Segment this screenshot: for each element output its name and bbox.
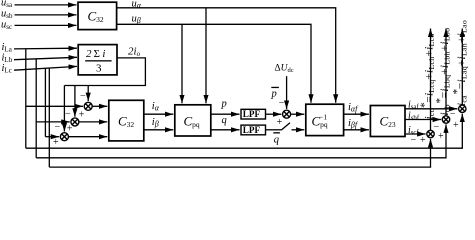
wire 2io drop into S3: [63, 86, 65, 132]
svg-text:2io: 2io: [128, 46, 141, 59]
summer S2: [71, 118, 79, 126]
svg-text:+: +: [453, 120, 459, 131]
svg-text:iβf: iβf: [348, 118, 359, 130]
wire bus phase-b to summer B: [36, 124, 446, 157]
svg-text:iαf: iαf: [348, 102, 359, 114]
wire dUdc drop into SP: [286, 76, 288, 109]
svg-text:p: p: [271, 88, 277, 99]
wire bus phase-c to summer C: [49, 139, 430, 167]
wire phase-c tap to summer S3: [44, 68, 46, 136]
wire i_Lc into S3: [45, 136, 59, 138]
wire SP to Cpq-inverse: [291, 113, 305, 115]
wire S3 to C32 current: [68, 136, 107, 138]
wire 2io drop into S1: [87, 86, 89, 102]
wire i_La input: [14, 47, 77, 50]
svg-text:LPF: LPF: [243, 109, 261, 119]
wire phase-a tap vertical: [25, 49, 27, 148]
svg-text:iα: iα: [152, 101, 160, 113]
switch blade: [281, 123, 290, 130]
wire summer C output up: [430, 29, 432, 131]
svg-text:+: +: [420, 135, 426, 146]
svg-text:ica*=iLaq+iLah+iLao: ica*=iLaq+iLah+iLao: [452, 20, 469, 106]
block LPF2: [241, 125, 266, 135]
svg-text:−: −: [55, 122, 61, 133]
wire bus phase-a to summer A: [26, 114, 463, 149]
wire i_alpha: [144, 113, 174, 115]
svg-text:iβ: iβ: [152, 117, 159, 129]
svg-text:iLa: iLa: [2, 42, 13, 54]
block Cpq inverse: [306, 104, 344, 135]
wire summer B output up: [445, 29, 447, 116]
svg-text:+: +: [79, 110, 85, 121]
wire i_beta: [144, 129, 174, 131]
block LPF1: [241, 109, 266, 119]
svg-text:−: −: [80, 91, 86, 102]
wire phase-c tap vertical to bus: [48, 68, 50, 167]
summer B: [442, 116, 449, 123]
svg-text:uβ: uβ: [132, 14, 141, 26]
svg-text:p: p: [221, 98, 227, 109]
svg-text:LPF: LPF: [243, 125, 261, 135]
svg-text:C32: C32: [118, 114, 134, 130]
fraction bar: [85, 60, 111, 61]
wire u_beta rail to Cpq-inverse: [117, 24, 311, 102]
wire p-bar to summer SP: [266, 113, 282, 115]
svg-text:uα: uα: [132, 0, 142, 10]
wire p to LPF1: [211, 113, 240, 115]
block C23: [370, 106, 405, 137]
wire switch to Cpq-inverse: [292, 129, 305, 131]
wire q-bar to switch: [266, 129, 282, 131]
wire u_alpha rail to Cpq-inverse: [117, 8, 336, 103]
wire q to LPF2: [211, 129, 240, 131]
wire i_beta_f: [344, 129, 369, 131]
wire 2io output distribution: [64, 58, 145, 86]
wire u_alpha drop to Cpq: [205, 8, 207, 104]
svg-text:3: 3: [96, 62, 102, 74]
svg-text:usc: usc: [1, 19, 12, 31]
svg-text:−: −: [279, 98, 285, 109]
summer C: [427, 130, 434, 137]
wire u_sa input: [15, 4, 77, 6]
svg-text:−: −: [65, 108, 71, 119]
wire S2 to C32 current: [79, 121, 107, 123]
wire i_scf to summer C: [405, 133, 426, 135]
wire i_La into S1: [26, 105, 83, 107]
wire summer A output up: [461, 29, 463, 106]
wire i_alpha_f: [344, 113, 369, 115]
svg-text:q: q: [274, 135, 279, 146]
wire u_sb input: [15, 14, 77, 16]
svg-text:2Σi: 2Σi: [86, 48, 105, 60]
svg-text:+: +: [277, 117, 283, 128]
wire S1 to C32 current: [92, 105, 107, 107]
wire phase-b tap vertical: [35, 59, 37, 158]
svg-text:q: q: [222, 115, 227, 126]
svg-text:isbf: isbf: [408, 110, 420, 122]
summer SP: [283, 110, 291, 118]
wire u_beta drop to Cpq: [181, 24, 183, 103]
wire i_Lc input: [14, 66, 77, 70]
summer A: [459, 105, 466, 112]
wire u_sc input: [15, 24, 77, 26]
wire i_Lb input: [14, 57, 77, 59]
summer S3: [60, 133, 68, 141]
block C32 current transform: [109, 100, 144, 141]
wire i_saf to summer A: [405, 108, 457, 110]
svg-text:C32: C32: [88, 9, 104, 25]
svg-text:icb*=iLbq+iLbh+iLbo: icb*=iLbq+iLbh+iLbo: [435, 28, 452, 116]
svg-text:+: +: [67, 124, 73, 135]
svg-text:−: −: [411, 135, 417, 146]
block C32 voltage transform: [78, 2, 117, 29]
svg-text:iLc: iLc: [2, 63, 12, 75]
svg-text:+: +: [53, 137, 59, 148]
svg-text:Cpq−1: Cpq−1: [312, 113, 328, 130]
svg-text:C23: C23: [380, 114, 396, 130]
wire 2io drop into S2: [74, 86, 76, 117]
svg-text:+: +: [438, 131, 444, 142]
wire i_sbf to summer B: [405, 119, 441, 121]
svg-text:Cpq: Cpq: [184, 114, 200, 130]
block 2-sigma-i-over-3: [78, 45, 117, 75]
svg-text:ΔUdc: ΔUdc: [275, 63, 294, 74]
wire i_Lb into S2: [36, 121, 69, 123]
svg-text:icc*=iLcq+iLch+iLco: icc*=iLcq+iLch+iLco: [419, 33, 436, 119]
summer S1: [84, 102, 92, 110]
block Cpq: [175, 105, 211, 136]
